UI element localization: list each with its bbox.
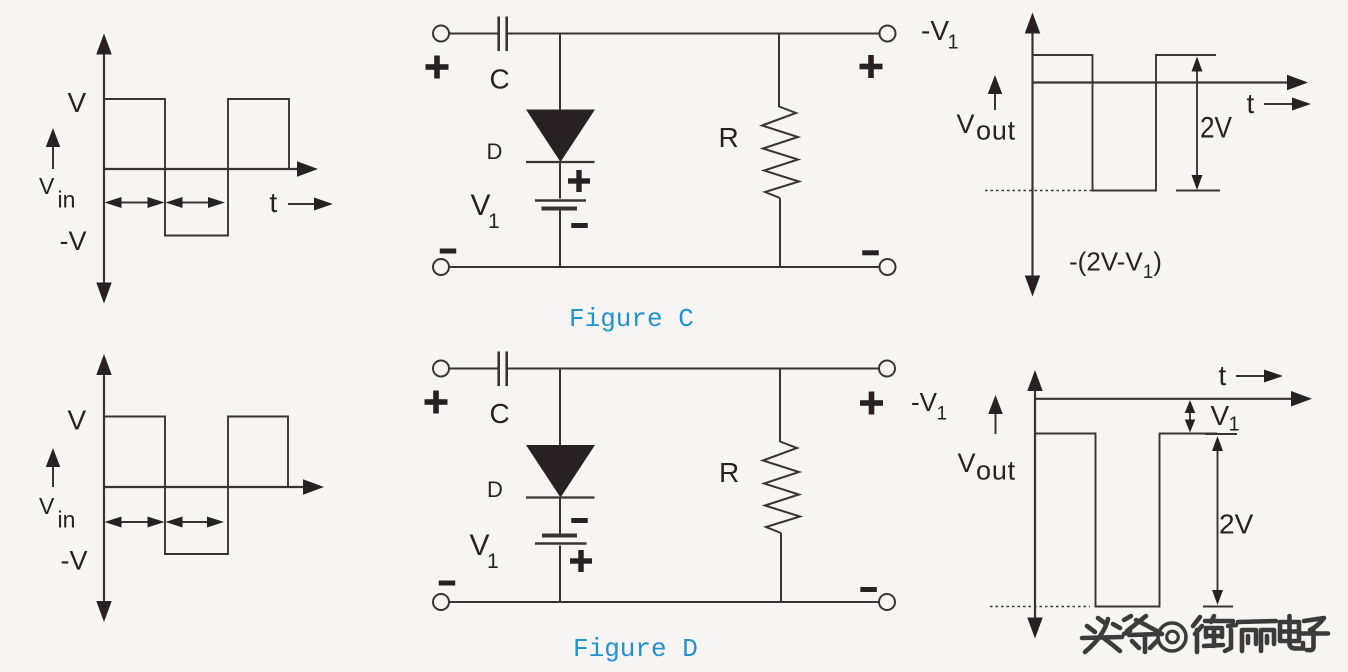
label V1 (Figure D)	[470, 529, 499, 573]
label -V1 output (Figure D)	[911, 387, 947, 425]
svg-text:D: D	[487, 139, 503, 164]
dotted level line (top-right graph)	[985, 190, 1092, 192]
plus label input (Figure C)	[426, 56, 449, 79]
battery V1 plates (Figure D)	[535, 536, 587, 544]
label t with arrow (top-right graph)	[1247, 88, 1312, 119]
label V (bottom-left graph)	[68, 405, 87, 436]
battery V1 minus mark (Figure C)	[571, 223, 588, 228]
diode D (Figure C)	[526, 110, 595, 163]
svg-text:in: in	[58, 507, 76, 533]
input terminal top-left (Figure D)	[433, 361, 449, 377]
caption Figure C	[569, 304, 694, 334]
wire resistor branch upper (Figure C)	[778, 34, 780, 108]
Vin square waveform (top-left graph)	[104, 99, 289, 236]
battery V1 plus mark (Figure D)	[570, 550, 592, 572]
svg-text:V: V	[39, 493, 55, 519]
label R (Figure C)	[719, 122, 739, 153]
svg-text:1: 1	[1229, 414, 1240, 436]
V1 dimension arrow (bottom-right graph)	[1185, 400, 1196, 433]
svg-text:V: V	[68, 405, 87, 436]
input terminal bottom-left (Figure D)	[433, 594, 449, 610]
label C (Figure C)	[490, 64, 510, 95]
svg-text:2V: 2V	[1219, 509, 1254, 540]
svg-text:D: D	[487, 477, 503, 502]
wire top rail right segment (Figure D)	[508, 368, 879, 370]
wire battery to bottom rail (Figure C)	[559, 211, 561, 268]
svg-text:V: V	[68, 87, 87, 118]
half-period dimension arrow 1 (bottom-left graph)	[105, 517, 165, 528]
wire battery to bottom rail (Figure D)	[559, 546, 561, 603]
Vin axis vertical (top-left graph)	[96, 34, 112, 304]
label D (Figure C)	[487, 139, 503, 164]
diode D (Figure D)	[526, 445, 595, 498]
svg-text:C: C	[490, 64, 510, 95]
label C (Figure D)	[490, 398, 510, 429]
Vout axis vertical (bottom-right graph)	[1027, 370, 1043, 639]
label -V1 output (Figure C)	[921, 15, 959, 54]
svg-text:V: V	[957, 109, 975, 139]
label t with arrow (bottom-right graph)	[1219, 360, 1284, 391]
svg-text:t: t	[270, 187, 278, 218]
minus label output (Figure D)	[860, 587, 877, 592]
output terminal top-right (Figure D)	[879, 361, 895, 377]
battery V1 minus mark (Figure D)	[571, 518, 588, 523]
resistor R zigzag (Figure C)	[762, 107, 799, 199]
svg-text:V: V	[1211, 400, 1230, 431]
svg-text:in: in	[58, 187, 76, 213]
plus label input (Figure D)	[425, 391, 448, 414]
Vout waveform (bottom-right graph)	[1035, 434, 1217, 607]
wire diode to battery (Figure D)	[559, 498, 561, 534]
wire bottom rail (Figure D)	[449, 601, 879, 603]
battery V1 plus mark (Figure C)	[568, 170, 590, 192]
Vout axis vertical (top-right graph)	[1025, 13, 1041, 297]
svg-text:V: V	[958, 448, 976, 478]
svg-text:Figure C: Figure C	[569, 304, 694, 334]
Vout axis horizontal (top-right graph)	[1033, 75, 1309, 91]
Vin axis vertical (bottom-left graph)	[96, 354, 112, 622]
label V (top-left graph)	[68, 87, 87, 118]
svg-text:1: 1	[487, 550, 499, 573]
svg-text:R: R	[719, 122, 739, 153]
svg-text:1: 1	[937, 404, 948, 425]
2V dimension bottom cap (bottom-right graph)	[1203, 606, 1233, 608]
label Vout with up arrow (top-right graph)	[957, 75, 1016, 146]
svg-text:1: 1	[488, 210, 500, 233]
watermark toutiao @hengli-dianzi	[1082, 616, 1328, 652]
svg-text:V: V	[39, 173, 55, 199]
svg-text:R: R	[719, 457, 739, 488]
wire resistor branch upper (Figure D)	[779, 369, 781, 443]
caption Figure D	[573, 634, 698, 664]
wire diode branch upper (Figure D)	[559, 369, 561, 446]
svg-text:-V: -V	[911, 387, 938, 417]
label V1 (Figure C)	[471, 189, 500, 233]
half-period dimension arrow 1 (top-left graph)	[105, 197, 165, 208]
label D (Figure D)	[487, 477, 503, 502]
label -V (top-left graph)	[60, 226, 87, 256]
svg-text:1: 1	[948, 32, 959, 54]
Vin axis horizontal t (top-left graph)	[104, 161, 318, 177]
2V dimension bottom cap (top-right graph)	[1176, 190, 1220, 192]
label Vout with up arrow (bottom-right graph)	[958, 395, 1016, 486]
input terminal top-left (Figure C)	[433, 26, 449, 42]
wire bottom rail (Figure C)	[449, 266, 880, 268]
wire top rail left segment (Figure D)	[449, 368, 498, 370]
label Vin with up arrow (top-left graph)	[39, 128, 75, 213]
wire top rail left segment (Figure C)	[449, 33, 498, 35]
dotted level line (bottom-right graph)	[990, 606, 1090, 608]
capacitor C plates (Figure C)	[499, 17, 507, 52]
label t with arrow (top-left graph)	[270, 187, 334, 218]
svg-text:-V: -V	[61, 546, 88, 576]
svg-text:2V: 2V	[1200, 112, 1232, 145]
half-period dimension arrow 2 (bottom-left graph)	[166, 517, 225, 528]
plus label output (Figure D)	[860, 392, 883, 415]
svg-text:Figure D: Figure D	[573, 634, 698, 664]
label V1 dimension (bottom-right graph)	[1211, 400, 1240, 436]
svg-text:out: out	[976, 116, 1016, 146]
2V dimension arrow (top-right graph)	[1192, 57, 1203, 191]
svg-text:-V: -V	[60, 226, 87, 256]
output terminal bottom-right (Figure C)	[880, 259, 896, 275]
svg-text:out: out	[976, 456, 1016, 486]
Vin square waveform (bottom-left graph)	[104, 417, 288, 555]
wire top rail right segment (Figure C)	[508, 33, 879, 35]
input terminal bottom-left (Figure C)	[433, 259, 449, 275]
label 2V (bottom-right graph)	[1219, 509, 1254, 540]
Vin axis horizontal (bottom-left graph)	[104, 479, 324, 495]
2V dimension arrow (bottom-right graph)	[1212, 436, 1223, 605]
output terminal bottom-right (Figure D)	[879, 594, 895, 610]
battery V1 plates (Figure C)	[535, 201, 586, 209]
wire diode branch upper (Figure C)	[559, 34, 561, 111]
wire resistor to bottom rail (Figure D)	[780, 533, 782, 602]
minus label input (Figure C)	[440, 249, 457, 254]
wire resistor to bottom rail (Figure C)	[779, 198, 781, 267]
label R (Figure D)	[719, 457, 739, 488]
label Vin with up arrow (bottom-left graph)	[39, 448, 75, 533]
svg-text:-V: -V	[921, 15, 949, 46]
resistor R zigzag (Figure D)	[763, 442, 800, 534]
label 2V (top-right graph)	[1200, 112, 1232, 145]
Vout axis horizontal (bottom-right graph)	[1035, 391, 1312, 407]
capacitor C plates (Figure D)	[499, 352, 507, 387]
minus label input (Figure D)	[439, 581, 456, 586]
Vout waveform (top-right graph)	[1033, 55, 1217, 191]
plus label output (Figure C)	[860, 55, 883, 78]
svg-text:t: t	[1247, 88, 1255, 119]
svg-text:t: t	[1219, 360, 1227, 391]
wire diode to battery (Figure C)	[559, 162, 561, 199]
minus label output (Figure C)	[862, 250, 879, 255]
half-period dimension arrow 2 (top-left graph)	[166, 197, 226, 208]
label -V (bottom-left graph)	[61, 546, 88, 576]
svg-text:C: C	[490, 398, 510, 429]
output terminal top-right (Figure C)	[880, 26, 896, 42]
2V dimension top cap (bottom-right graph)	[1205, 433, 1237, 435]
